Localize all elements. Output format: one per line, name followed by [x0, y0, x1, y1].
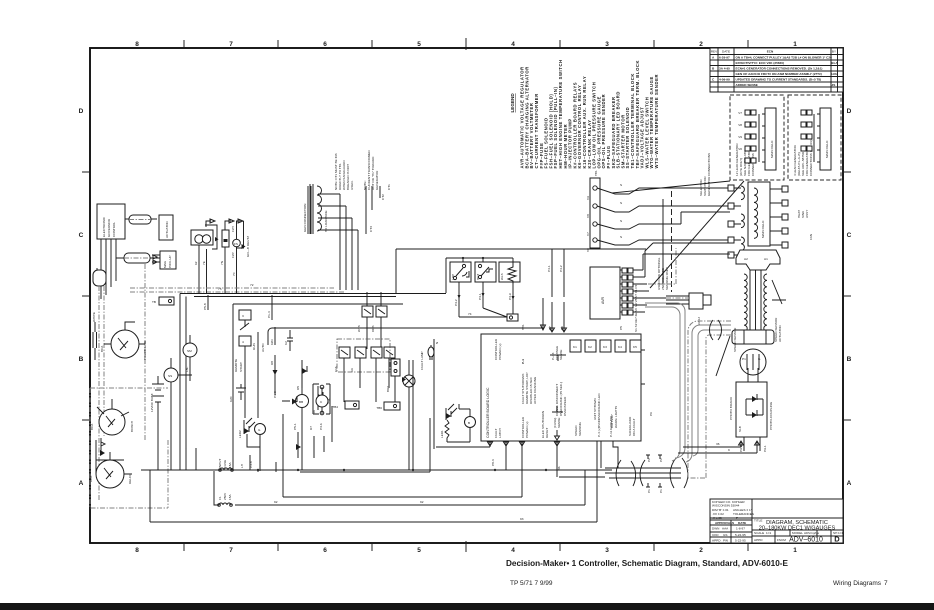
svg-text:MAIN FIELD: MAIN FIELD [825, 140, 829, 158]
svg-text:FS: FS [234, 242, 238, 246]
svg-text:92: 92 [274, 500, 278, 504]
right zone letters [847, 108, 852, 487]
bottom zone numbers [135, 547, 797, 554]
svg-text:OPS: OPS [371, 325, 375, 332]
BR2 connector [391, 359, 400, 376]
dashdot drop wires [99, 264, 145, 500]
svg-text:7: 7 [884, 580, 888, 587]
svg-text:GOVERNOR: GOVERNOR [107, 218, 111, 237]
dashed box left (12-lead generator connections) [730, 95, 784, 180]
LED1 cluster [446, 413, 451, 419]
svg-text:6: 6 [323, 41, 327, 48]
svg-text:V0: V0 [738, 147, 742, 151]
svg-text:SM: SM [187, 349, 192, 353]
svg-text:C: C [847, 232, 852, 239]
svg-text:BY: BY [832, 50, 836, 54]
svg-text:LOP: LOP [451, 274, 455, 280]
svg-text:1=1: 1=1 [766, 531, 772, 535]
svg-text:DATE: DATE [722, 50, 730, 54]
svg-text:PW: PW [723, 539, 728, 543]
svg-text:P8-3: P8-3 [491, 459, 495, 466]
harness squares mid [728, 185, 734, 191]
svg-text:18F: 18F [185, 367, 189, 372]
CT primary bars [308, 186, 311, 234]
svg-text:K2: K2 [588, 345, 592, 349]
svg-text:PHOTO-COUPLING: PHOTO-COUPLING [769, 401, 773, 430]
svg-text:6-29-97: 6-29-97 [719, 56, 730, 60]
svg-text:15A: 15A [228, 462, 232, 468]
left zone ticks [82, 172, 90, 420]
box2 pin squares [801, 110, 812, 151]
K relays in controller [570, 340, 581, 352]
electronic governor control box [97, 204, 125, 239]
svg-text:P3-1: P3-1 [478, 293, 482, 300]
svg-text:APPD: APPD [712, 539, 721, 543]
clamp arcs [616, 458, 688, 488]
actuator box [159, 215, 173, 240]
main outer rails [180, 294, 186, 470]
svg-text:A2: A2 [744, 257, 748, 261]
svg-text:ACTUATOR: ACTUATOR [165, 221, 169, 238]
svg-text:S: S [620, 219, 622, 223]
svg-text:K20: K20 [229, 396, 233, 402]
svg-text:MAIN FIELD: MAIN FIELD [770, 140, 774, 158]
rotor block [736, 250, 780, 270]
svg-text:OVERSPEED: OVERSPEED [563, 396, 567, 416]
box2 note text [793, 140, 813, 176]
svg-text:7E: 7E [202, 261, 206, 265]
svg-text:K6: K6 [350, 368, 354, 372]
svg-text:CONTROL: CONTROL [112, 222, 116, 237]
generator connection detail boxes [612, 95, 841, 288]
svg-text:P9-1: P9-1 [763, 445, 767, 452]
svg-text:ADV/mj/tjw: ADV/mj/tjw [804, 531, 820, 535]
fault lamp [403, 375, 415, 387]
svg-text:250V: 250V [223, 492, 227, 500]
wires avr to field region [643, 243, 730, 277]
svg-text:N: N [435, 342, 439, 344]
svg-text:C: C [79, 232, 84, 239]
svg-text:SPEED SENSOR: SPEED SENSOR [733, 327, 737, 352]
caption and footer [0, 559, 934, 610]
svg-text:A1: A1 [764, 257, 768, 261]
svg-text:36: 36 [557, 466, 561, 470]
current transformer CT1-CT3 with notes [303, 149, 391, 290]
BCA delco [96, 460, 124, 488]
svg-text:LH: LH [240, 464, 244, 468]
svg-text:FAULT LAMP: FAULT LAMP [420, 351, 424, 370]
LED2 [244, 428, 249, 434]
svg-text:FUSE: FUSE [223, 460, 227, 468]
svg-text:4-09-99: 4-09-99 [719, 78, 730, 82]
BCA bosch [99, 409, 125, 435]
governor wires down [101, 239, 116, 299]
svg-text:7N: 7N [220, 261, 224, 265]
K16 K6 relay row [339, 347, 350, 358]
BCA prestolite [111, 330, 139, 358]
svg-text:HET: HET [476, 274, 480, 280]
frame dash rails right [666, 297, 689, 299]
svg-text:4: 4 [242, 340, 244, 344]
svg-text:TO LOAD SIDE: TO LOAD SIDE [324, 210, 328, 232]
sensor boxes LOP HET WLS [396, 249, 646, 332]
svg-text:5: 5 [417, 41, 421, 48]
svg-text:8: 8 [135, 547, 139, 554]
svg-text:S1 S2 6E7 6E V0 V9 V8 V7 P1 P2: S1 S2 6E7 6E V0 V9 V8 V7 P1 P2 [634, 284, 638, 332]
svg-text:JS: JS [832, 83, 836, 87]
svg-text:BB: BB [299, 400, 303, 404]
middle section [130, 219, 612, 522]
svg-text:GENERATOR CONNECTIONS: GENERATOR CONNECTIONS [707, 153, 711, 196]
K12 connector [245, 332, 258, 418]
svg-text:D8: D8 [270, 361, 274, 365]
svg-text:ON A TB#4, CONNECT PULLEY 1&A8: ON A TB#4, CONNECT PULLEY 1&A8 T2B L# ON… [736, 56, 833, 60]
svg-text:WARN. LIGHTS: WARN. LIGHTS [614, 406, 618, 428]
svg-text:CT2: CT2 [381, 194, 385, 200]
svg-text:LRH: LRH [832, 72, 839, 76]
svg-text:SENSE: SENSE [557, 418, 561, 429]
legend text block (rotated 90deg CCW) [510, 59, 659, 168]
remote start switch [239, 310, 251, 320]
svg-text:K2: K2 [284, 341, 288, 345]
svg-text:LEGEND: LEGEND [510, 93, 515, 113]
svg-text:CONNECTIONS: CONNECTIONS [751, 153, 755, 176]
note 2 (vertical) [363, 149, 379, 190]
svg-text:TITLE: TITLE [754, 519, 762, 523]
title block [710, 499, 844, 544]
TB1 terminal strip [590, 178, 600, 248]
svg-text:SENSING ONLY: SENSING ONLY [665, 267, 669, 290]
IP box [222, 230, 229, 247]
fan wires from TB1 to field connectors [597, 188, 730, 194]
rotor coil (speed sensor actuator) [744, 270, 767, 334]
svg-text:3: 3 [242, 314, 244, 318]
svg-text:2: 2 [699, 41, 703, 48]
svg-text:BCA: BCA [90, 423, 94, 430]
svg-text:AVR: AVR [601, 296, 605, 304]
K20 crank relay cap [236, 384, 246, 400]
svg-text:FAN: FAN [809, 234, 813, 240]
svg-text:5: 5 [417, 547, 421, 554]
dashdot frame bottom-left [90, 440, 168, 508]
svg-text:REMOTE: REMOTE [234, 359, 238, 372]
starter solenoid SS circle [164, 368, 178, 382]
svg-text:WHITE: WHITE [92, 312, 96, 322]
svg-text:APPD: APPD [754, 538, 763, 542]
svg-text:5-22-95: 5-22-95 [735, 539, 746, 543]
capacitor on left [93, 322, 97, 360]
svg-text:V6: V6 [560, 326, 564, 330]
svg-text:RESET: RESET [545, 428, 549, 438]
svg-text:MAG: MAG [163, 260, 167, 268]
right zone ticks [843, 172, 851, 420]
svg-text:P3-6: P3-6 [319, 423, 323, 430]
bottom zone ticks [184, 541, 748, 552]
svg-text:P1: P1 [659, 489, 663, 493]
governor harness connector [125, 218, 157, 220]
svg-text:USED.: USED. [350, 180, 354, 190]
top zone ticks [184, 38, 748, 50]
box2 main field coil [820, 108, 831, 170]
svg-text:EFFECTIVITY#: ECO V2K (25660): EFFECTIVITY#: ECO V2K (25660) [736, 61, 784, 65]
svg-text:AFTER CRANKING: AFTER CRANKING [533, 376, 537, 404]
box1 V labels [738, 111, 742, 151]
svg-text:DWN: DWN [712, 527, 719, 531]
svg-text:P-4: P-4 [521, 359, 525, 364]
svg-text:A: A [79, 480, 84, 487]
svg-text:V7: V7 [586, 232, 590, 236]
svg-text:93: 93 [520, 517, 524, 521]
main field box [748, 182, 770, 246]
horizontal bus y292 [130, 287, 334, 289]
box1 note text [735, 143, 755, 176]
controller board logic box [268, 298, 653, 477]
svg-text:70A: 70A [327, 398, 331, 404]
svg-text:ECN: ECN [767, 50, 774, 54]
inner enclosure rect [233, 304, 403, 452]
svg-text:12VDC BATT.: 12VDC BATT. [150, 393, 154, 412]
svg-text:K3: K3 [603, 345, 607, 349]
svg-text:9: 9 [728, 448, 730, 452]
svg-text:TB1: TB1 [594, 170, 598, 176]
svg-text:K4: K4 [618, 345, 622, 349]
field pin squares right [782, 186, 788, 192]
svg-text:WTS: WTS [357, 325, 361, 332]
svg-text:TB4: TB4 [332, 405, 338, 409]
svg-text:SLB: SLB [738, 426, 742, 432]
svg-text:BOSCH: BOSCH [130, 421, 134, 432]
diode marks near delco [100, 450, 105, 456]
speed sensor circle [740, 349, 766, 375]
svg-text:Wiring Diagrams: Wiring Diagrams [833, 580, 882, 587]
svg-text:TB1: TB1 [521, 324, 525, 330]
svg-text:3: 3 [605, 41, 609, 48]
TB boxes mid [345, 401, 359, 409]
svg-text:WTS–WATER TEMPERATURE SENDER: WTS–WATER TEMPERATURE SENDER [654, 74, 659, 169]
selector note left of box1 [699, 153, 711, 196]
svg-text:F2H: F2H [231, 226, 235, 232]
small cylinder plug [96, 268, 98, 282]
svg-text:TB: TB [152, 300, 156, 304]
svg-text:4: 4 [511, 547, 515, 554]
svg-text:F2P: F2P [231, 252, 235, 258]
svg-text:V7: V7 [738, 111, 742, 115]
svg-text:.X ±.05: .X ±.05 [712, 516, 722, 520]
svg-text:APPROVALS: APPROVALS [715, 521, 734, 525]
svg-text:ASSY: ASSY [805, 210, 809, 218]
svg-text:B: B [847, 356, 852, 363]
svg-text:P-11 GROUND: P-11 GROUND [609, 415, 613, 437]
speed sensor clamp [732, 330, 774, 344]
svg-text:V7: V7 [548, 326, 552, 330]
svg-text:P4-1: P4-1 [547, 265, 551, 272]
svg-text:ELA: ELA [832, 61, 839, 65]
svg-text:PICK-UP: PICK-UP [168, 255, 172, 268]
svg-text:AUTO: AUTO [261, 343, 265, 352]
svg-text:ON A FAULT: ON A FAULT [632, 418, 636, 436]
svg-text:3A 4-95: 3A 4-95 [719, 67, 730, 71]
vadj box [689, 293, 703, 309]
svg-text:REV: REV [711, 50, 718, 54]
svg-text:F1: F1 [218, 496, 222, 500]
svg-text:ECN#1 GENERATOR CONNECTIONS RE: ECN#1 GENERATOR CONNECTIONS REMOVED. (2k… [736, 67, 823, 71]
svg-text:D: D [79, 108, 84, 115]
right generator section [586, 170, 813, 452]
bottom black bar [0, 603, 934, 610]
svg-text:PHOTO BOARD: PHOTO BOARD [729, 396, 733, 420]
svg-text:72: 72 [250, 283, 254, 287]
svg-text:GENERATOR: GENERATOR [375, 170, 379, 190]
svg-text:20–180KW DEC1 W/GAUGES: 20–180KW DEC1 W/GAUGES [759, 526, 836, 532]
TB1 stub box [159, 297, 174, 305]
svg-text:WISCONSIN 53044: WISCONSIN 53044 [712, 504, 740, 508]
cable bundle bottom [559, 303, 760, 493]
svg-text:70: 70 [232, 272, 236, 276]
left column [89, 204, 345, 508]
svg-text:P-4 (+)5VDC: P-4 (+)5VDC [597, 418, 601, 437]
svg-text:4: 4 [511, 41, 515, 48]
svg-text:P5-1: P5-1 [293, 423, 297, 430]
top zone numbers [135, 41, 797, 48]
mag pickup box [160, 251, 176, 269]
svg-text:GEN CONNECTION: GEN CONNECTION [303, 204, 307, 232]
svg-text:7: 7 [229, 41, 233, 48]
svg-text:UPDATED DRAWING TO CURRENT STA: UPDATED DRAWING TO CURRENT STANDARDS. (D… [736, 78, 822, 82]
CT coils [310, 184, 322, 234]
svg-text:S: S [620, 183, 622, 187]
svg-text:MAIN FIELD: MAIN FIELD [761, 220, 765, 238]
svg-text:B: B [468, 421, 470, 425]
svg-text:D5: D5 [296, 386, 300, 390]
svg-text:GEN OF A2#/C/O FRCT# ON ASM NU: GEN OF A2#/C/O FRCT# ON ASM NUMBER ASSML… [736, 72, 822, 76]
svg-text:CT3: CT3 [369, 226, 373, 232]
svg-text:3: 3 [605, 547, 609, 554]
svg-text:K1: K1 [573, 345, 577, 349]
svg-text:TB6: TB6 [376, 406, 382, 410]
note 1 (vertical) [334, 153, 354, 190]
left zone letters [79, 108, 84, 487]
revision table [710, 48, 843, 92]
svg-text:P6: P6 [649, 412, 653, 416]
svg-text:GO—B DEUTZ: GO—B DEUTZ [246, 236, 250, 257]
svg-text:CKD: CKD [712, 533, 719, 537]
box1 pin squares [745, 110, 756, 163]
svg-text:V9: V9 [738, 135, 742, 139]
svg-text:P1: P1 [742, 357, 746, 361]
svg-text:POWER (+): POWER (+) [525, 422, 529, 438]
svg-text:7: 7 [229, 547, 233, 554]
svg-text:6: 6 [323, 547, 327, 554]
P-4/P-11 drops from controller [601, 441, 618, 468]
svg-text:BR2: BR2 [386, 386, 390, 392]
svg-text:P1-4: P1-4 [267, 311, 271, 318]
photo board SLB box [736, 382, 767, 437]
svg-text:36: 36 [716, 442, 720, 446]
svg-text:V9: V9 [586, 196, 590, 200]
wires to SLB [683, 441, 744, 447]
mag pickup connector [116, 257, 162, 259]
svg-text:D: D [847, 108, 852, 115]
svg-text:ELECTRONIC: ELECTRONIC [102, 216, 106, 237]
WTG OPG small boxes [362, 306, 373, 317]
svg-text:LED1: LED1 [440, 430, 444, 438]
svg-text:OVERCRANK LED: OVERCRANK LED [597, 393, 601, 420]
svg-text:S: S [620, 201, 622, 205]
svg-text:62R: 62R [270, 339, 274, 345]
starter motor SM circle [183, 343, 197, 357]
svg-text:P3-9: P3-9 [508, 293, 512, 300]
svg-text:P5-8: P5-8 [203, 303, 207, 310]
svg-text:P5: P5 [619, 326, 623, 330]
svg-text:SS: SS [168, 374, 172, 378]
svg-text:POWER (+): POWER (+) [498, 344, 502, 360]
svg-text:8: 8 [135, 41, 139, 48]
heat sink assy label [797, 210, 809, 218]
svg-text:ACTUATOR: ACTUATOR [778, 325, 782, 342]
svg-text:ADDED SENSE: ADDED SENSE [736, 83, 758, 87]
svg-text:15A: 15A [228, 494, 232, 500]
box1 main field coil [765, 108, 776, 170]
svg-text:CONTROLLER BOARD LOGIC: CONTROLLER BOARD LOGIC [486, 387, 490, 438]
avr used-for note [657, 257, 669, 290]
diodes D5 D6 [302, 368, 307, 374]
svg-text:LATCH: LATCH [498, 428, 502, 438]
two lamp circles w diodes [296, 395, 309, 408]
svg-text:5-22-95: 5-22-95 [735, 533, 746, 537]
sensor top rail [446, 257, 513, 259]
svg-text:SENSING: SENSING [578, 421, 582, 436]
gray feeders curving in [645, 303, 731, 462]
svg-text:1-8-97: 1-8-97 [736, 527, 745, 531]
svg-text:2: 2 [699, 547, 703, 554]
svg-text:TP 5/71 7 9/99: TP 5/71 7 9/99 [510, 580, 553, 587]
pointer diagonals to TB1 [612, 181, 744, 288]
svg-text:DATE: DATE [738, 521, 746, 525]
svg-text:BCA: BCA [100, 345, 104, 352]
svg-text:AAA: AAA [722, 527, 729, 531]
exciter windings [734, 186, 744, 255]
svg-text:GS: GS [723, 533, 727, 537]
svg-text:B: B [79, 356, 84, 363]
svg-text:WLS: WLS [500, 273, 504, 280]
svg-text:FSCM: FSCM [777, 538, 786, 542]
wires down from gauges to bus [199, 245, 237, 293]
svg-text:1: 1 [793, 41, 797, 48]
svg-text:P1: P1 [647, 489, 651, 493]
svg-text:P3-2: P3-2 [454, 299, 458, 306]
svg-text:Decision-Maker• 1 Controller,: Decision-Maker• 1 Controller, Schematic … [506, 559, 788, 568]
junction dots on rails [257, 469, 547, 471]
svg-text:D7: D7 [309, 426, 313, 430]
FSH solenoid [233, 239, 241, 247]
svg-text:INPUT: INPUT [218, 459, 222, 468]
gauge pair box (BV/HM) [191, 230, 213, 245]
svg-text:K5: K5 [633, 345, 637, 349]
drawing border frame [79, 38, 852, 554]
svg-text:P4-2: P4-2 [559, 265, 563, 272]
svg-text:RUN: RUN [252, 343, 256, 350]
svg-text:P1-3: P1-3 [273, 391, 277, 398]
svg-text:LED2: LED2 [238, 430, 242, 438]
conduit run [559, 468, 681, 478]
battery [152, 376, 164, 412]
svg-text:MODEL: MODEL [792, 531, 803, 535]
svg-text:START: START [239, 362, 243, 372]
svg-text:V8: V8 [586, 214, 590, 218]
controller power rail from top [268, 328, 543, 345]
svg-text:SCALE: SCALE [754, 531, 764, 535]
svg-text:62: 62 [194, 261, 198, 265]
